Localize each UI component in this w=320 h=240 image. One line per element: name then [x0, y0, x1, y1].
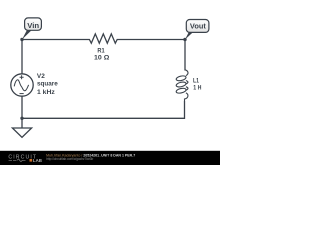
svg-text:L1: L1 — [193, 77, 199, 84]
svg-text:LAB: LAB — [33, 158, 42, 163]
svg-text:1 kHz: 1 kHz — [37, 89, 55, 96]
svg-text:http://circuitlab.com/c/gachz7: http://circuitlab.com/c/gachz7lar3b — [46, 157, 93, 161]
svg-text:V2: V2 — [37, 73, 45, 80]
svg-text:R1: R1 — [97, 47, 104, 54]
svg-text:Vin: Vin — [27, 23, 39, 30]
svg-text:Vout: Vout — [190, 22, 207, 31]
svg-text:10 Ω: 10 Ω — [94, 55, 110, 62]
svg-text:1 H: 1 H — [193, 84, 201, 91]
svg-text:square: square — [37, 81, 58, 88]
